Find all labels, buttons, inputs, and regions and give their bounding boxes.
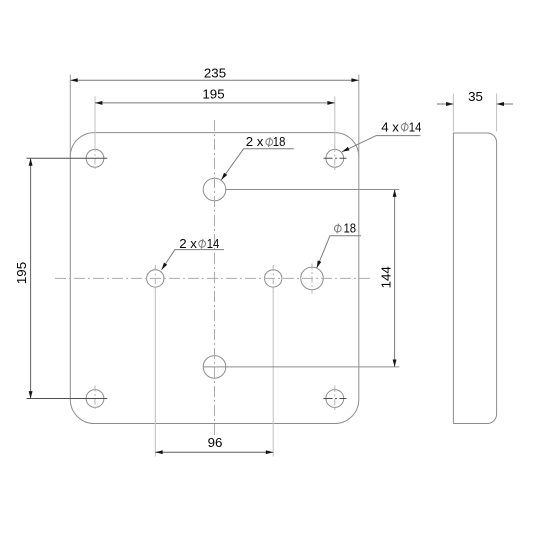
svg-text:2 x: 2 x	[179, 236, 197, 251]
side view outline	[453, 133, 496, 424]
extension line top D18 hole horizontal (144)	[226, 189, 399, 191]
hole middle-center (D14)	[265, 270, 282, 287]
svg-text:18: 18	[273, 134, 286, 149]
hole middle-left (D14)	[147, 270, 164, 287]
plate front view outline	[70, 133, 359, 424]
dimension 35 side view line	[437, 103, 513, 105]
svg-text:14: 14	[409, 119, 422, 134]
svg-text:14: 14	[207, 236, 220, 251]
dimension 195 left line	[30, 158, 32, 398]
leader 2 x D14	[162, 250, 225, 270]
centerline cross hole middle-right	[311, 264, 313, 294]
dimension 144 right line	[394, 190, 396, 367]
extension line side view right (35)	[496, 94, 498, 132]
svg-text:4 x: 4 x	[381, 119, 399, 134]
svg-text:96: 96	[208, 435, 223, 450]
svg-text:195: 195	[14, 262, 29, 284]
label 2 x D14 text	[179, 236, 219, 251]
label 4 x D14 text	[381, 119, 421, 134]
centerline vertical main	[214, 120, 216, 435]
extension line bottom D18 hole horizontal (144)	[203, 366, 399, 368]
dimension 195 top line	[95, 102, 335, 104]
leader 4 x D14	[342, 136, 421, 152]
dimension 96 bottom line	[155, 451, 273, 453]
leader D18 middle-right	[317, 236, 361, 268]
hole top middle (D18)	[203, 178, 226, 201]
svg-text:2 x: 2 x	[246, 134, 264, 149]
extension line side view left (35)	[452, 94, 454, 132]
centerline cross hole top-right	[334, 146, 336, 172]
extension line right plate edge (235)	[358, 75, 360, 157]
hole bottom-right corner (D14)	[326, 390, 344, 408]
extension line left plate edge (235)	[69, 75, 71, 157]
label D18 text	[334, 220, 356, 235]
svg-text:195: 195	[202, 87, 224, 102]
centerline horizontal main	[55, 277, 373, 279]
centerline cross hole middle-left	[154, 265, 156, 292]
centerline cross hole middle-center	[272, 265, 274, 292]
centerline cross hole bottom-right	[334, 386, 336, 412]
label 2 x D18 text	[246, 134, 286, 149]
hole top-right corner (D14)	[326, 149, 344, 167]
extension line top-left hole (195)	[94, 96, 96, 150]
hole middle-right (D18)	[301, 267, 324, 290]
svg-text:235: 235	[204, 65, 226, 80]
extension line bottom-left hole horizontal (195 left)	[27, 398, 108, 400]
svg-text:18: 18	[344, 220, 357, 235]
svg-text:35: 35	[468, 89, 483, 104]
dimension 235 line	[70, 79, 359, 81]
extension line top-left hole horizontal (195 left)	[27, 157, 108, 159]
extension line mid-center hole down (96)	[272, 288, 274, 457]
svg-text:144: 144	[379, 266, 394, 288]
extension line mid-left hole down (96)	[154, 288, 156, 457]
hole bottom-left corner (D14)	[86, 390, 104, 408]
hole top-left corner (D14)	[86, 149, 104, 167]
leader 2 x D18	[221, 149, 293, 180]
centerline cross hole bottom-left	[94, 386, 96, 412]
extension line top-right hole (195)	[334, 96, 336, 150]
centerline cross hole top-left	[94, 146, 96, 172]
hole bottom middle (D18)	[203, 356, 226, 379]
